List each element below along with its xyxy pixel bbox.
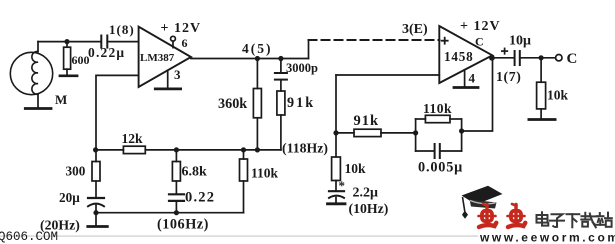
resistor 110k (stage 1) — [240, 150, 248, 213]
capacitor 0.22u — [101, 36, 138, 48]
svg-text:10μ: 10μ — [509, 34, 531, 49]
node dot (RC left) — [413, 130, 418, 135]
resistor 360k — [253, 59, 261, 150]
char zi — [552, 214, 563, 227]
resistor 110k (feedback) — [425, 115, 450, 122]
svg-text:C: C — [567, 51, 578, 67]
wire LM387 output to node 4(5) — [191, 58, 309, 60]
svg-text:360k: 360k — [218, 96, 247, 112]
svg-text:2.2μ: 2.2μ — [353, 186, 379, 201]
ground (LM387 pin 3) — [155, 70, 180, 89]
capacitor 10u — [515, 51, 556, 65]
ground (20u) — [88, 213, 108, 227]
svg-text:Q606.COM: Q606.COM — [0, 230, 58, 244]
svg-text:M: M — [55, 92, 67, 107]
watermark character chong 2 — [508, 204, 526, 227]
svg-text:4: 4 — [469, 71, 476, 86]
svg-text:300: 300 — [66, 164, 86, 179]
svg-text:1(8): 1(8) — [109, 22, 135, 37]
terminal C — [556, 55, 562, 61]
op-amp U1 LM387 — [139, 27, 191, 87]
svg-text:(106Hz): (106Hz) — [157, 217, 209, 233]
svg-text:+ 12V: + 12V — [161, 21, 202, 36]
resistor 12k — [123, 146, 145, 153]
watermark graduation cap — [462, 186, 503, 219]
capacitor 2.2u — [329, 191, 344, 204]
wire feedback to output — [462, 58, 493, 131]
bottom rule — [0, 236, 478, 237]
wire mic top to capacitor — [38, 41, 101, 43]
node dot (91k input) — [333, 130, 338, 135]
svg-text:10k: 10k — [345, 161, 367, 176]
capacitor 3000p — [275, 59, 287, 92]
resistor 300 — [92, 150, 100, 197]
char zai — [582, 215, 590, 217]
ground (1458 pin 4) — [454, 70, 478, 88]
resistor 6.8k — [172, 150, 180, 194]
node dot (20u bottom) — [93, 210, 98, 215]
svg-text:www.eeworm.com: www.eeworm.com — [479, 230, 615, 244]
wire LM387 inverting feedback — [96, 75, 139, 149]
node dot (RC right) — [459, 128, 464, 133]
bottom bus wire — [96, 212, 244, 214]
svg-text:600: 600 — [72, 53, 90, 67]
svg-text:3000p: 3000p — [286, 61, 318, 75]
capacitor 0.005u — [435, 144, 440, 158]
output node dot — [489, 55, 495, 61]
svg-text:(10Hz): (10Hz) — [349, 201, 389, 217]
op-amp U2 1458 — [439, 26, 492, 83]
svg-text:20μ: 20μ — [59, 190, 80, 205]
svg-text:3(E): 3(E) — [402, 22, 428, 37]
svg-text:110k: 110k — [423, 101, 452, 116]
capacitor 20u — [88, 198, 104, 213]
svg-text:(118Hz): (118Hz) — [282, 141, 328, 157]
node dot (6.8k top) — [174, 147, 179, 152]
svg-text:LM387: LM387 — [140, 52, 175, 64]
watermark character chong 1 — [479, 204, 497, 227]
microphone M — [10, 42, 52, 109]
+12V supply (LM387) — [161, 21, 202, 48]
svg-text:12k: 12k — [122, 131, 144, 146]
svg-text:C: C — [475, 35, 484, 49]
node dot (10k load top) — [539, 55, 544, 60]
node dot 3000p top — [278, 56, 283, 61]
ground (600) — [60, 75, 77, 78]
svg-text:0.22: 0.22 — [185, 190, 215, 206]
svg-text:0.005μ: 0.005μ — [418, 160, 463, 176]
svg-text:+ 12V: + 12V — [460, 19, 501, 34]
svg-text:0.22μ: 0.22μ — [88, 45, 125, 60]
wire to 1458 + input (dashed) — [309, 40, 440, 59]
svg-text:1(7): 1(7) — [496, 69, 521, 85]
svg-text:6.8k: 6.8k — [182, 165, 208, 180]
capacitor 0.22 — [169, 194, 184, 212]
svg-text:4(5): 4(5) — [242, 41, 273, 56]
bus wire (tone network top) — [96, 149, 281, 151]
svg-text:10k: 10k — [547, 88, 569, 103]
watermark text dianzi xiazaizhan — [537, 212, 612, 227]
resistor 91k (stage 1) — [277, 91, 285, 150]
+ polarity sign — [502, 48, 507, 53]
parallel RC frame — [416, 119, 462, 151]
svg-text:110k: 110k — [251, 166, 279, 181]
char xia — [567, 213, 580, 215]
node (mic / 600 junction) — [64, 39, 69, 44]
svg-text:1458: 1458 — [444, 49, 474, 64]
ground (10k load) — [529, 118, 555, 121]
svg-text:6: 6 — [182, 36, 188, 50]
node dot (110k top) — [241, 147, 246, 152]
+ input sign — [442, 38, 448, 44]
wire output to capacitor — [492, 57, 514, 59]
wire feedback node vertical (stage 2) — [336, 75, 439, 157]
char zhan — [599, 213, 601, 216]
svg-text:3: 3 — [174, 67, 181, 82]
resistor 91k (stage 2) — [336, 129, 416, 136]
node dot (0.22 bottom) — [174, 210, 179, 215]
svg-text:91k: 91k — [354, 113, 380, 129]
node dot (360k bottom) — [255, 147, 260, 152]
resistor 10k (output load) — [537, 58, 546, 120]
ground (microphone) — [25, 107, 51, 110]
ground (2.2u) — [328, 202, 346, 205]
resistor 600 — [64, 42, 71, 76]
node dot (bus left) — [93, 147, 98, 152]
char dian — [537, 215, 548, 223]
node dot 360k top — [255, 56, 260, 61]
svg-text:91k: 91k — [287, 95, 315, 111]
resistor 10k (bottom) — [332, 157, 341, 191]
